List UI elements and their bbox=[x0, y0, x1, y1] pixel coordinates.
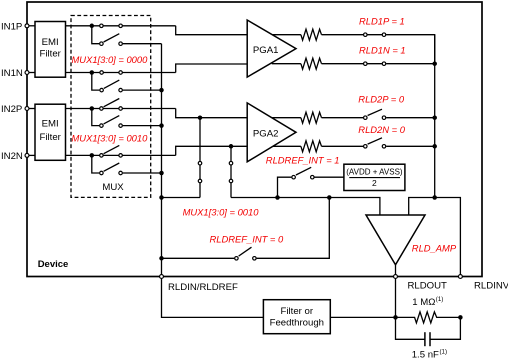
pin IN2P bbox=[25, 107, 29, 111]
wire ch1 EMI to switch row bbox=[66, 25, 100, 27]
wire RLDREF_INT=0 branch down bbox=[257, 198, 330, 259]
svg-text:1 MΩ: 1 MΩ bbox=[412, 297, 435, 308]
wire PGA2 - tap down to switch SV2 bbox=[230, 146, 232, 197]
svg-text:2: 2 bbox=[372, 178, 377, 188]
resistor RF 1M bbox=[396, 312, 461, 323]
pin IN1N bbox=[25, 71, 29, 75]
node ch2 open row on bus bbox=[159, 88, 164, 93]
wire RLD1P to bus corner bbox=[386, 35, 435, 64]
svg-text:RLDOUT: RLDOUT bbox=[407, 280, 447, 291]
switch RLD1P (closed) bbox=[363, 33, 386, 37]
pin RLDOUT bbox=[394, 275, 398, 279]
filter box bbox=[263, 300, 330, 334]
switch S4B (open, IN2N to RLDIN bus) bbox=[100, 163, 123, 175]
node ch3 branch bbox=[90, 106, 95, 111]
svg-text:(1): (1) bbox=[436, 296, 444, 303]
svg-text:RLD1N = 1: RLD1N = 1 bbox=[359, 44, 406, 55]
wire PGA2 + tap down to switch SV1 bbox=[199, 118, 201, 198]
svg-text:Filter or: Filter or bbox=[281, 306, 314, 317]
node RLD1N on bus bbox=[432, 61, 437, 65]
wire PGA1 bottom output bbox=[272, 63, 301, 65]
svg-text:MUX1[3:0] = 0000: MUX1[3:0] = 0000 bbox=[72, 54, 149, 65]
svg-text:PGA1: PGA1 bbox=[253, 45, 279, 56]
wire ch2 open row to bus bbox=[123, 89, 162, 91]
wire IN1N to EMI filter 1 bbox=[27, 72, 35, 74]
node RLD2P on bus bbox=[432, 115, 437, 120]
wire ch4 row through to step bbox=[99, 154, 176, 156]
device box bbox=[27, 2, 482, 277]
svg-text:RLD1P = 1: RLD1P = 1 bbox=[359, 15, 405, 26]
node RLDIN bus junction bbox=[159, 195, 164, 200]
label 1.5 nF bbox=[412, 348, 447, 360]
node RLDREF_INT=0 on RLDIN bus bbox=[159, 256, 164, 261]
svg-text:RLDREF_INT = 1: RLDREF_INT = 1 bbox=[266, 154, 340, 165]
reference voltage box (AVDD+AVSS)/2 bbox=[344, 164, 405, 190]
wire RLD reference bus to RLD_AMP + input bbox=[231, 198, 380, 216]
svg-text:(AVDD + AVSS): (AVDD + AVSS) bbox=[346, 167, 403, 176]
wire ch1 closed switch row through to step bbox=[99, 25, 176, 27]
switch RLDREF_INT0 (open) bbox=[235, 247, 257, 260]
wire R1 to switch bbox=[322, 34, 364, 36]
wire RLDREF_INT=1 branch up bbox=[278, 177, 292, 197]
svg-text:MUX: MUX bbox=[102, 182, 124, 193]
wire ch4 step up to PGA2 - input bbox=[176, 146, 248, 155]
switch RLD1N (closed) bbox=[363, 62, 386, 65]
svg-text:Device: Device bbox=[38, 259, 69, 270]
svg-text:RLD2N = 0: RLD2N = 0 bbox=[358, 124, 405, 135]
wire IN2P to EMI filter 2 bbox=[27, 108, 35, 110]
op-amp RLD_AMP bbox=[366, 215, 425, 265]
wire RLD_AMP - input from bus bbox=[409, 198, 461, 277]
label 1 Mohm bbox=[412, 296, 443, 308]
wire RLD2P to bus bbox=[386, 117, 435, 119]
svg-text:IN1P: IN1P bbox=[1, 21, 22, 32]
node ch2 branch bbox=[90, 70, 95, 75]
node PGA2 + tap bbox=[198, 115, 203, 120]
wire ch2 branch down to open row bbox=[92, 73, 100, 91]
wire ch3 branch down to open row bbox=[92, 109, 99, 126]
capacitor CF 1.5nF bbox=[425, 332, 430, 346]
wire RLDIN pin to filter box bbox=[162, 277, 264, 318]
svg-text:PGA2: PGA2 bbox=[253, 128, 279, 139]
wire RLD summing bus vertical bbox=[434, 35, 436, 198]
svg-text:RLDREF_INT = 0: RLDREF_INT = 0 bbox=[210, 234, 285, 245]
resistor R4 (PGA2N) bbox=[301, 141, 322, 152]
switch RLD2N (open) bbox=[364, 138, 386, 148]
svg-text:MUX1[3:0] = 0010: MUX1[3:0] = 0010 bbox=[72, 133, 149, 144]
wire filter box to RLDOUT net bbox=[330, 316, 395, 318]
wire ch4 open row to bus bbox=[123, 172, 162, 174]
pin RLDIN/RLDREF bbox=[160, 275, 164, 279]
node ch4 open row on bus bbox=[159, 171, 164, 176]
wire RLDIN bus vertical bbox=[161, 44, 163, 277]
node RLDINV-resistor bbox=[458, 315, 463, 320]
switch S3B (open, IN2P to RLDIN bus) bbox=[100, 116, 123, 128]
wire ch2 step up to PGA1 - input bbox=[176, 64, 248, 73]
node RLDREF_INT=1 branch bbox=[275, 195, 280, 200]
EMI filter box 2 bbox=[35, 104, 66, 160]
wire PGA2 bottom output bbox=[273, 145, 301, 147]
svg-text:EMI: EMI bbox=[42, 119, 59, 130]
resistor R3 (PGA2P) bbox=[301, 112, 322, 123]
pin IN1P bbox=[25, 24, 29, 28]
wire R4 to switch bbox=[322, 145, 364, 147]
node ch1 branch bbox=[90, 24, 95, 29]
wire RLDOUT vertical to cap row bbox=[396, 277, 425, 340]
wire R3 to switch bbox=[322, 117, 364, 119]
wire RLD2N to bus bbox=[386, 145, 435, 147]
node RLD2N on bus bbox=[432, 144, 437, 149]
svg-text:Filter: Filter bbox=[40, 48, 62, 59]
switch S2A (closed, IN1N to PGA1) bbox=[100, 71, 123, 75]
wire IN1P to EMI filter 1 bbox=[27, 25, 35, 27]
op-amp PGA2 bbox=[247, 103, 296, 162]
resistor R1 (PGA1P) bbox=[301, 29, 322, 40]
wire PGA2 top output bbox=[272, 117, 301, 119]
node - input to summing bus bbox=[432, 195, 437, 200]
wire ch1 open row to bus corner bbox=[123, 43, 162, 45]
wire ch1 branch down to open row bbox=[92, 26, 99, 44]
wire ch3 row through to step bbox=[99, 108, 176, 110]
EMI filter box 1 bbox=[35, 22, 66, 78]
wire RLD_AMP output to RLDOUT pin bbox=[395, 265, 397, 277]
svg-text:(1): (1) bbox=[440, 348, 448, 355]
switch RLD2P (open) bbox=[364, 109, 386, 119]
svg-text:IN1N: IN1N bbox=[1, 68, 23, 79]
wire PGA1 top output bbox=[272, 34, 301, 36]
switch RLDREF_INT1 (open) bbox=[292, 167, 314, 179]
svg-text:IN2P: IN2P bbox=[1, 104, 22, 115]
svg-text:IN2N: IN2N bbox=[1, 151, 23, 162]
svg-text:Filter: Filter bbox=[40, 132, 62, 143]
switch S1B (open, IN1P to RLDIN bus) bbox=[100, 34, 123, 46]
wire R2 to switch bbox=[322, 63, 364, 65]
node ch4 branch bbox=[90, 153, 95, 158]
node ch3 open row on bus bbox=[159, 123, 164, 128]
wire ch3 EMI to switch row bbox=[66, 108, 100, 110]
svg-text:MUX1[3:0] = 0010: MUX1[3:0] = 0010 bbox=[183, 206, 260, 217]
svg-text:RLD2P = 0: RLD2P = 0 bbox=[358, 94, 405, 105]
MUX dashed box bbox=[71, 16, 151, 198]
wire RLD1N to bus bbox=[386, 63, 435, 65]
wire ch1 step down to PGA1 + input bbox=[176, 26, 248, 35]
node RLDOUT-resistor bbox=[393, 315, 398, 320]
svg-text:EMI: EMI bbox=[42, 37, 59, 48]
resistor R2 (PGA1N) bbox=[301, 58, 322, 69]
node RLDREF_INT=0 branch bbox=[327, 195, 332, 200]
wire ch4 EMI to switch row bbox=[66, 154, 100, 156]
svg-text:RLDIN/RLDREF: RLDIN/RLDREF bbox=[168, 282, 238, 293]
switch S3A (open, IN2P row) bbox=[100, 99, 123, 111]
svg-text:RLDINV: RLDINV bbox=[474, 280, 508, 291]
wire ch2 closed row through to step bbox=[99, 72, 175, 74]
svg-text:RLD_AMP: RLD_AMP bbox=[412, 243, 457, 254]
svg-text:Feedthrough: Feedthrough bbox=[270, 317, 324, 328]
wire ch3 open row to bus bbox=[123, 125, 162, 127]
pin RLDINV bbox=[458, 275, 462, 279]
switch S2B (open, IN1N to RLDIN bus) bbox=[100, 80, 123, 92]
op-amp PGA1 bbox=[247, 20, 296, 77]
switch S1A (closed, IN1P to PGA1) bbox=[100, 24, 123, 28]
svg-text:1.5 nF: 1.5 nF bbox=[412, 349, 439, 360]
wire ch4 branch down to open row bbox=[92, 155, 99, 173]
switch S4A (open, IN2N row) bbox=[100, 145, 123, 157]
wire switch to AVDD box bbox=[315, 176, 344, 178]
wire SV1 bottom to RLDIN bus bbox=[162, 197, 201, 199]
switch SV2 (closed vertical) bbox=[229, 161, 233, 182]
wire switch to RLDIN bus bbox=[162, 257, 235, 259]
pin IN2N bbox=[25, 153, 29, 157]
wire ch2 EMI to switch row bbox=[66, 72, 100, 74]
wire ch3 step down to PGA2 + input bbox=[176, 109, 248, 118]
node PGA2 - tap bbox=[229, 144, 234, 149]
wire IN2N to EMI filter 2 bbox=[27, 154, 35, 156]
switch SV1 (closed vertical) bbox=[198, 161, 202, 182]
wire cap to RLDINV vertical bbox=[430, 317, 460, 339]
